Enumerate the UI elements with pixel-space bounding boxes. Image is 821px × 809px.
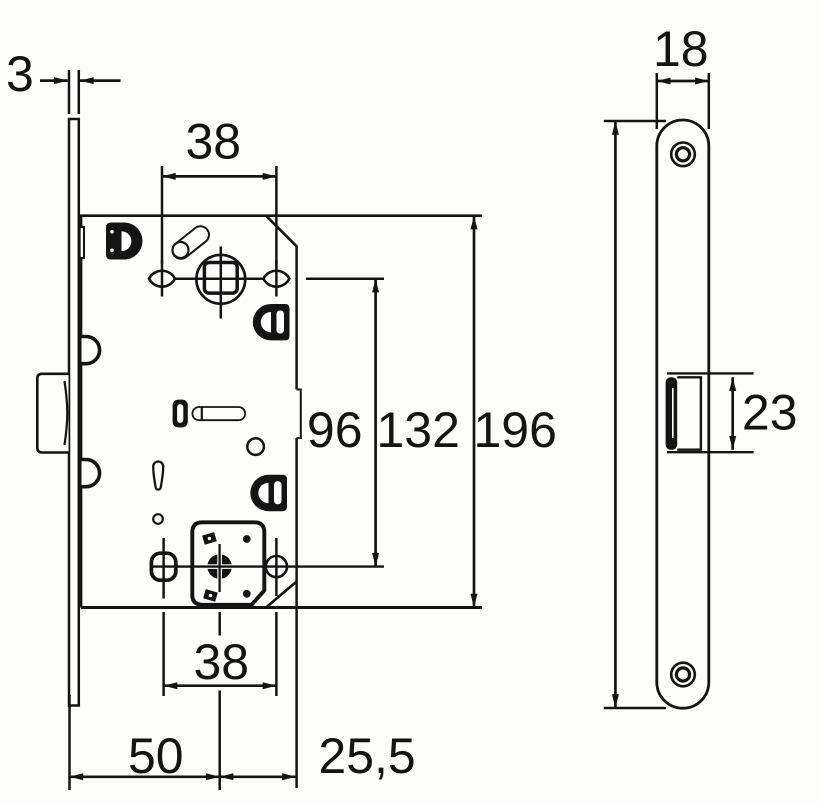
screw hole top left — [149, 271, 175, 287]
dim 25,5 line — [220, 775, 296, 778]
lock body top edge with extension to 196 dim — [79, 214, 482, 217]
small circle A — [247, 438, 264, 455]
dim 50 extension line — [68, 695, 71, 790]
dim 3 extension ticks — [69, 70, 79, 114]
dim 23 line — [731, 377, 734, 449]
dim 3 leader left — [40, 79, 68, 82]
bottom screw hole — [266, 556, 287, 577]
top horizontal centerline — [149, 277, 290, 280]
dim 3 leader right — [80, 79, 121, 82]
96-132 top extension line — [306, 277, 384, 280]
plate rivet bottom — [243, 590, 251, 598]
screw hole top right — [263, 271, 289, 287]
svg-text:132: 132 — [377, 402, 460, 458]
svg-text:3: 3 — [6, 46, 34, 102]
svg-text:196: 196 — [474, 402, 557, 458]
bottom screw — [671, 663, 695, 687]
small bar component — [173, 400, 188, 428]
dim 38 top line — [162, 175, 276, 178]
handle hub square — [204, 263, 237, 294]
plate screw tab top — [202, 532, 217, 545]
lock body bottom edge with extension to 196 dim — [81, 606, 482, 609]
latch bolt face curve — [65, 381, 68, 445]
top screw — [671, 143, 695, 167]
plate screw tab bottom — [203, 589, 218, 602]
lock body left edge — [80, 216, 83, 608]
latch front bar — [666, 377, 678, 449]
side overall dim extension lines — [604, 121, 666, 708]
WC spindle plate — [192, 522, 264, 605]
body right edge notch — [297, 390, 301, 439]
dim 38 bottom extension lines — [164, 612, 277, 790]
svg-text:25,5: 25,5 — [318, 728, 415, 784]
faceplate front view — [69, 119, 79, 706]
teardrop pin — [153, 462, 163, 490]
svg-text:38: 38 — [194, 634, 250, 690]
svg-text:38: 38 — [186, 114, 242, 170]
body right edge upper — [295, 246, 298, 390]
dim 18 extension lines — [657, 73, 709, 129]
dim 50 line — [70, 775, 220, 778]
handle hub circle — [196, 255, 245, 304]
D-clip right upper — [253, 304, 290, 340]
oval fixing hole bottom left — [151, 553, 175, 580]
D-clip top left — [106, 223, 143, 260]
svg-text:50: 50 — [128, 728, 184, 784]
plate rivet top — [243, 535, 251, 543]
dim 196 line — [473, 216, 476, 608]
svg-text:96: 96 — [307, 402, 363, 458]
body top-right chamfer — [267, 216, 297, 246]
latch body — [677, 377, 701, 449]
faceplate side view — [657, 120, 709, 708]
small circle B — [153, 514, 163, 524]
WC hub — [207, 544, 232, 592]
magnetic latch bolt front view — [37, 374, 68, 453]
latch extension lines — [667, 373, 754, 452]
edge half-clip lower — [82, 460, 100, 487]
lever capsule with washer — [173, 235, 201, 258]
svg-text:23: 23 — [742, 385, 798, 441]
dim 18 line — [657, 80, 709, 83]
bottom horizontal centerline — [151, 565, 385, 567]
dim 96-132 line — [374, 279, 377, 567]
svg-text:18: 18 — [653, 21, 709, 77]
pin capsule — [199, 407, 239, 421]
D-clip right lower — [250, 475, 287, 511]
edge half-clip upper — [82, 337, 100, 364]
dim 38 top extension lines — [162, 166, 276, 268]
body bottom-right chamfer — [266, 582, 297, 608]
dim 38 bottom line — [164, 684, 277, 687]
body right edge lower + extension below — [295, 438, 298, 788]
left edge slot bar — [80, 227, 84, 258]
side overall dim line — [614, 121, 617, 708]
handle hub vertical centerline — [220, 247, 223, 319]
